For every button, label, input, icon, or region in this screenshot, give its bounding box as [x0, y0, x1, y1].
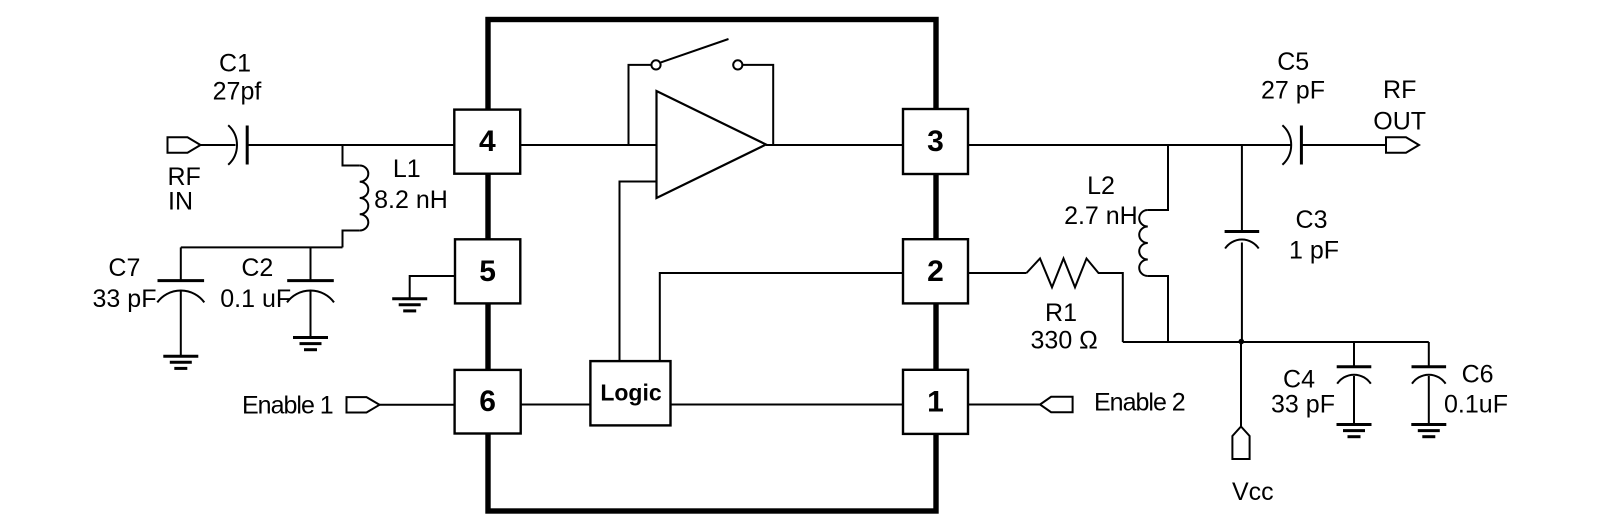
svg-text:2: 2: [927, 255, 944, 288]
svg-text:L1: L1: [393, 155, 421, 183]
svg-text:C7: C7: [108, 254, 140, 282]
svg-text:C5: C5: [1277, 48, 1309, 76]
svg-text:33 pF: 33 pF: [93, 285, 157, 313]
svg-text:Enable 2: Enable 2: [1094, 389, 1185, 417]
svg-text:1 pF: 1 pF: [1289, 236, 1339, 264]
svg-text:27 pF: 27 pF: [1261, 77, 1325, 105]
svg-text:RF: RF: [1383, 76, 1416, 104]
svg-text:Vcc: Vcc: [1232, 478, 1274, 506]
svg-text:C4: C4: [1283, 366, 1315, 394]
svg-text:33 pF: 33 pF: [1271, 391, 1335, 419]
svg-text:OUT: OUT: [1373, 108, 1426, 136]
svg-text:4: 4: [479, 125, 496, 158]
svg-text:R1: R1: [1045, 299, 1077, 327]
svg-text:IN: IN: [168, 187, 193, 215]
svg-text:6: 6: [479, 385, 496, 418]
svg-text:C3: C3: [1296, 206, 1328, 234]
svg-text:L2: L2: [1087, 172, 1115, 200]
svg-text:Logic: Logic: [600, 380, 662, 406]
svg-text:Enable 1: Enable 1: [242, 391, 333, 419]
svg-text:3: 3: [927, 125, 944, 158]
svg-text:0.1 uF: 0.1 uF: [220, 285, 291, 313]
svg-text:C6: C6: [1462, 360, 1494, 388]
svg-text:330 Ω: 330 Ω: [1031, 327, 1098, 355]
svg-text:C1: C1: [219, 49, 251, 77]
svg-text:27pf: 27pf: [213, 78, 262, 106]
svg-text:1: 1: [927, 385, 944, 418]
svg-text:5: 5: [479, 255, 496, 288]
svg-text:C2: C2: [241, 254, 273, 282]
svg-text:2.7 nH: 2.7 nH: [1064, 202, 1138, 230]
svg-text:0.1uF: 0.1uF: [1444, 391, 1508, 419]
svg-text:8.2 nH: 8.2 nH: [374, 186, 448, 214]
